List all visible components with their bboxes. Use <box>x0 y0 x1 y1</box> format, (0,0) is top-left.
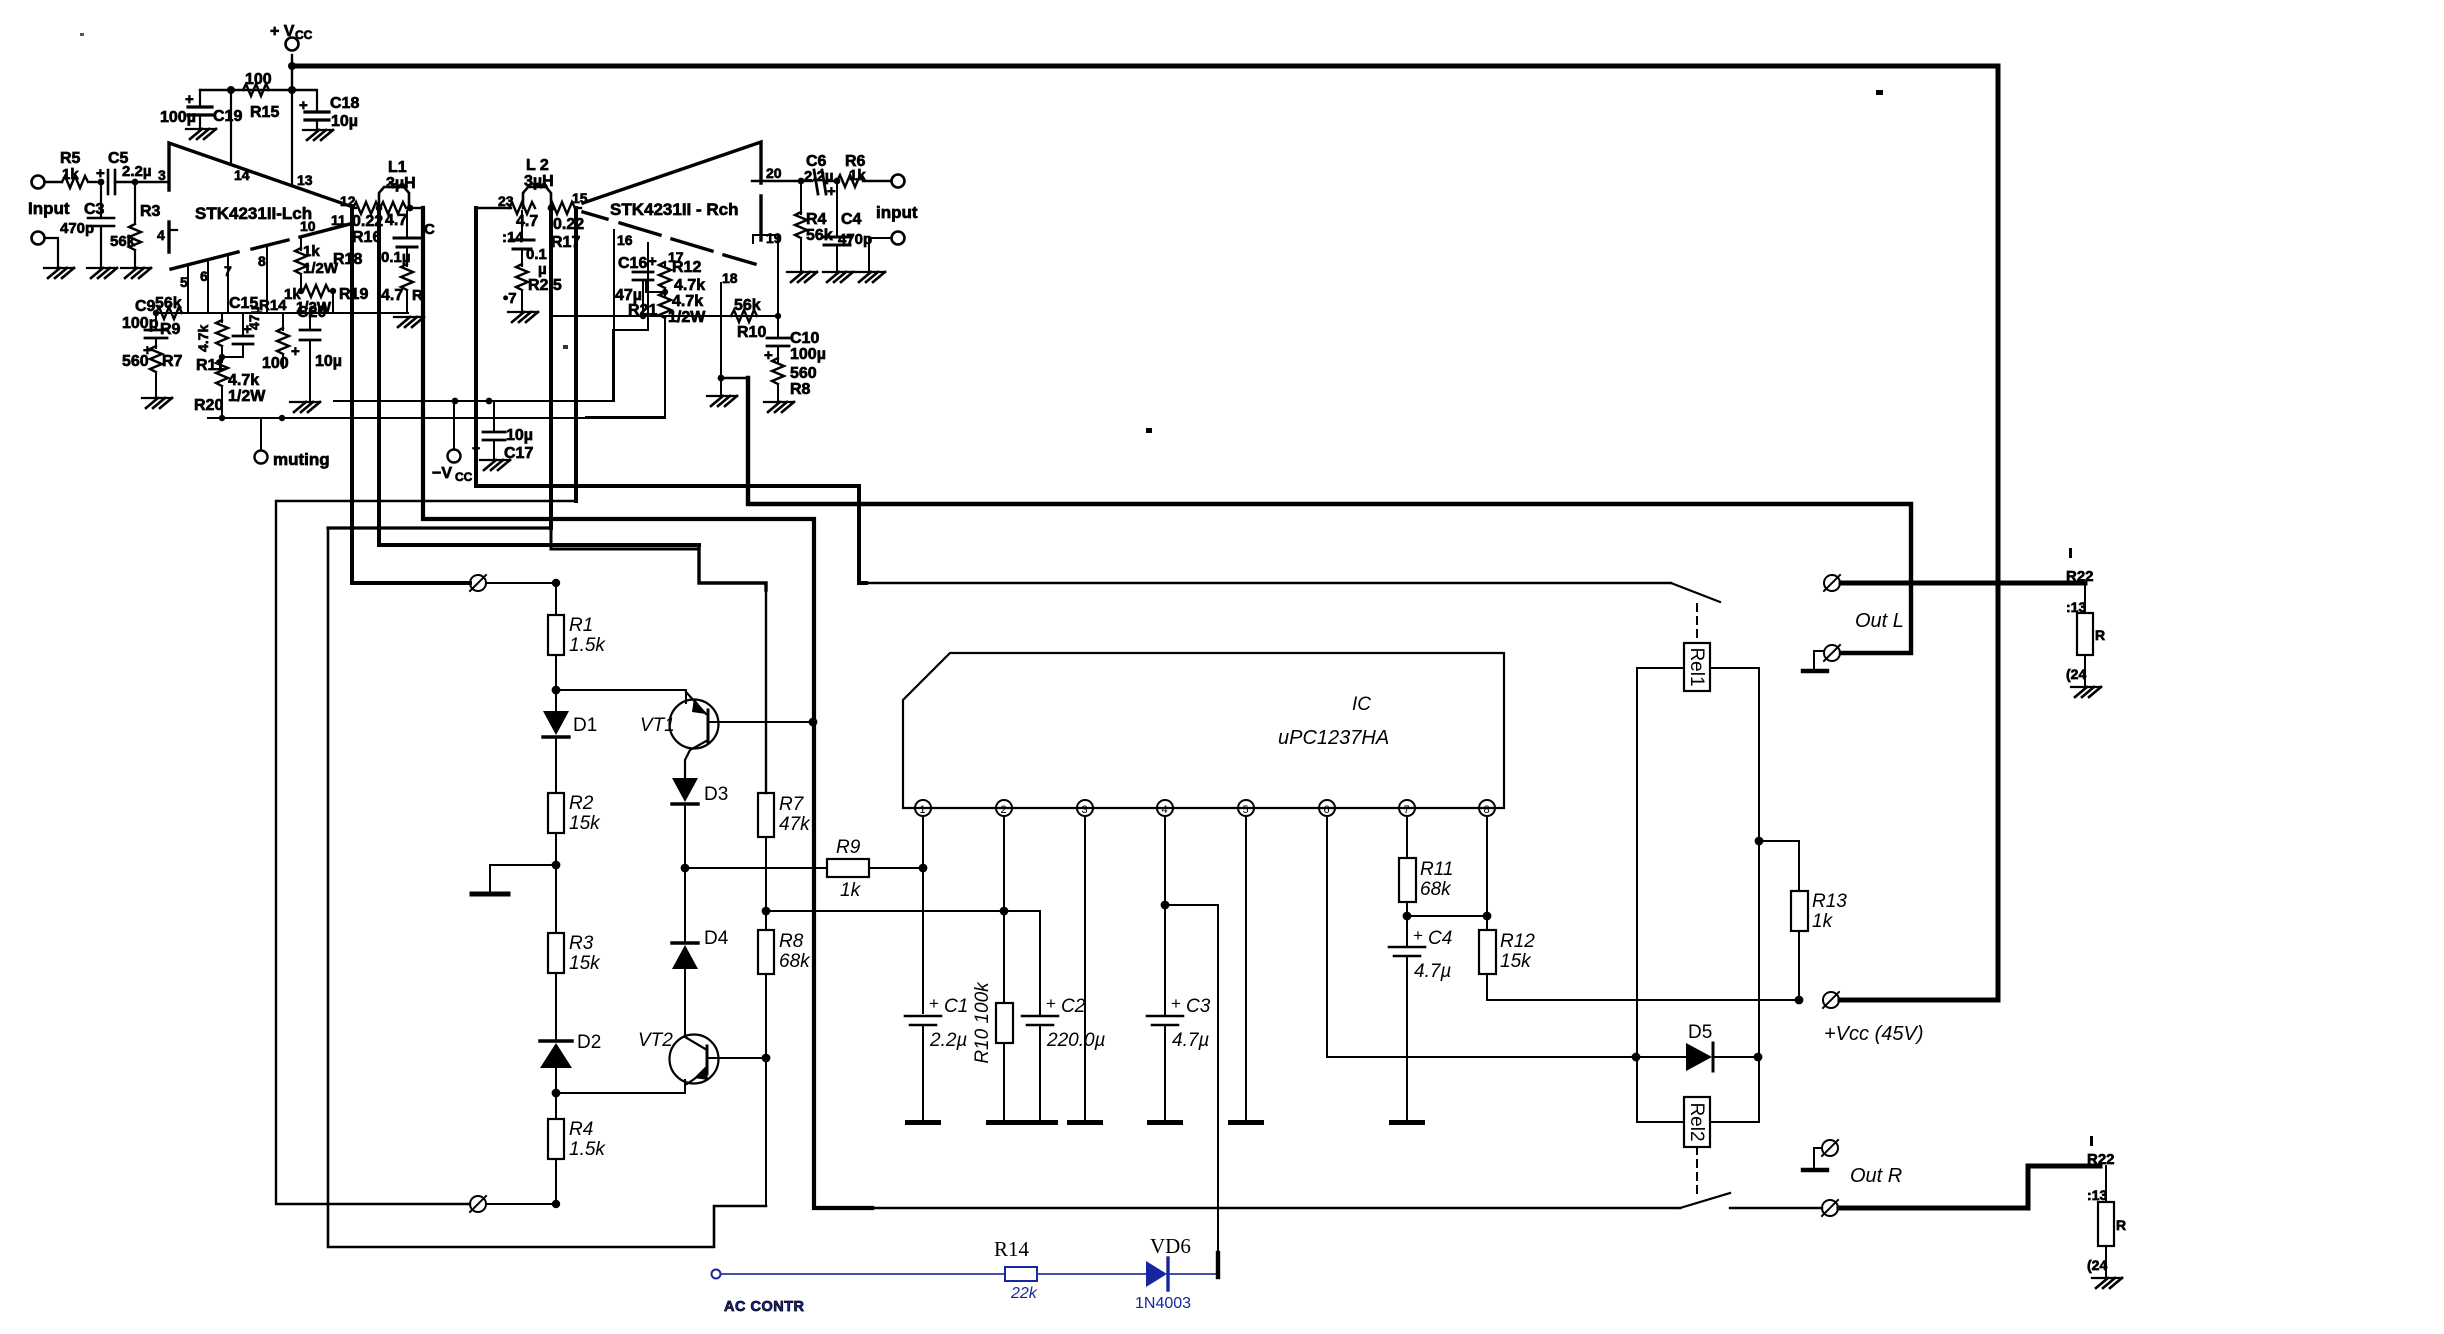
svg-text:68k: 68k <box>1420 879 1452 900</box>
svg-text:10µ: 10µ <box>331 113 358 130</box>
pin 5 <box>187 266 189 313</box>
svg-text:D5: D5 <box>1688 1022 1712 1043</box>
node pin14 <box>227 86 235 94</box>
wire <box>865 180 891 182</box>
svg-text:+: + <box>1046 994 1056 1013</box>
wire base VT1 <box>556 690 686 703</box>
wire Rch input node down to Rel1 switch feed <box>476 208 866 583</box>
resistor R11 68k <box>1399 858 1416 902</box>
svg-text:R14: R14 <box>994 1237 1030 1261</box>
pin 2 <box>996 800 1012 816</box>
Lch feedback row <box>156 312 408 314</box>
dashed link to Rel2 switch <box>1696 1147 1698 1193</box>
svg-text:C2: C2 <box>1061 996 1086 1017</box>
svg-text:100µ: 100µ <box>160 109 196 126</box>
pin 18 <box>720 283 722 316</box>
wire Lch output to Out R feed: long drop at x=814 <box>423 208 872 1208</box>
node <box>552 1200 560 1208</box>
svg-text:470p: 470p <box>60 220 94 237</box>
pin 16 <box>613 230 615 401</box>
ground pin3 <box>1067 1120 1103 1125</box>
svg-text:R2 5: R2 5 <box>528 277 562 294</box>
input terminal 2 (Lch) <box>32 232 45 245</box>
pin 6 <box>207 261 209 313</box>
svg-text:(24: (24 <box>2066 666 2086 682</box>
svg-text:10: 10 <box>300 218 316 234</box>
svg-text:Out L: Out L <box>1855 610 1904 632</box>
svg-text:1k: 1k <box>1812 911 1834 932</box>
svg-text:2.2µ: 2.2µ <box>122 163 152 180</box>
node <box>798 178 805 185</box>
wire Lch speaker hot: pin12 node down to top terminal row <box>352 208 470 583</box>
svg-text:100p: 100p <box>122 315 159 332</box>
svg-text:Rel2: Rel2 <box>1686 1102 1707 1141</box>
svg-text:3: 3 <box>158 167 166 183</box>
wire thin to R4 <box>487 1203 556 1205</box>
pin 20 output <box>752 180 801 182</box>
wire to output vertical <box>410 207 423 209</box>
node <box>552 1089 561 1098</box>
svg-text:R10: R10 <box>737 324 766 341</box>
svg-text:R9: R9 <box>836 837 861 858</box>
svg-text:STK4231II-Lch: STK4231II-Lch <box>195 204 312 223</box>
ground <box>2092 1278 2122 1288</box>
node R13 top <box>1755 837 1764 846</box>
row1 drop at 613 <box>612 330 614 401</box>
ground Out L <box>1814 651 1824 669</box>
node <box>552 579 560 587</box>
ground pin5 <box>1228 1120 1264 1125</box>
svg-text:5: 5 <box>1243 804 1249 816</box>
wire to R13 <box>1759 841 1799 891</box>
capacitor C3 4.7u <box>1147 1015 1183 1018</box>
resistor R1 1.5k <box>555 583 557 615</box>
wire to pin3 <box>135 181 169 183</box>
svg-text:4: 4 <box>157 227 165 243</box>
pin 14 <box>230 90 232 163</box>
node <box>376 205 383 212</box>
svg-text::14: :14 <box>502 229 524 246</box>
capacitor C4 4.7u <box>1389 946 1425 949</box>
capacitor C6 2.2u <box>814 170 818 194</box>
svg-text:7: 7 <box>1404 804 1410 816</box>
node <box>1403 912 1412 921</box>
svg-text:muting: muting <box>273 450 330 469</box>
node <box>552 686 561 695</box>
svg-text:C: C <box>424 221 435 238</box>
svg-text:R13: R13 <box>1812 891 1847 912</box>
svg-text:6: 6 <box>200 268 208 284</box>
svg-text:µ: µ <box>538 261 547 278</box>
wire <box>45 238 58 268</box>
relay coil loop Rel2 <box>1637 1057 1684 1122</box>
resistor R bottom <box>2098 1202 2114 1246</box>
node R7/R8 <box>762 907 771 916</box>
ground <box>44 268 74 278</box>
svg-text:R4: R4 <box>569 1119 593 1140</box>
capacitor C4 470p <box>836 181 838 237</box>
svg-text:C18: C18 <box>330 95 359 112</box>
pin 8 <box>1479 800 1495 816</box>
svg-text:4.7: 4.7 <box>385 212 407 229</box>
svg-text:C9: C9 <box>135 298 156 315</box>
terminal protection bottom <box>470 1196 486 1212</box>
ground under C3 <box>87 268 117 278</box>
capacitor C1 2.2u <box>905 1015 941 1018</box>
svg-text:23: 23 <box>498 193 514 209</box>
svg-text:4.7k: 4.7k <box>195 325 211 352</box>
svg-text:10µ: 10µ <box>315 353 342 370</box>
svg-text:15k: 15k <box>1500 951 1532 972</box>
placeholder groups filled below <box>28 23 1998 484</box>
svg-text:D3: D3 <box>704 784 728 805</box>
resistor R12 4.7k <box>664 263 666 266</box>
capacitor C3 <box>100 182 102 218</box>
diode D3 <box>672 778 698 802</box>
switch Rel2 contact <box>1680 1193 1730 1208</box>
scan speckles <box>1146 428 1152 433</box>
node AC control terminal <box>712 1270 721 1279</box>
node <box>552 861 561 870</box>
svg-text:R8: R8 <box>779 931 804 952</box>
svg-text:20: 20 <box>766 165 782 181</box>
svg-text:C3: C3 <box>1186 996 1211 1017</box>
ground <box>1147 1120 1183 1125</box>
svg-text:5: 5 <box>180 274 188 290</box>
wire R11 to pin8 <box>1407 915 1487 917</box>
svg-text:+ V: + V <box>270 23 295 40</box>
svg-text:R8: R8 <box>790 381 811 398</box>
svg-text:4.7µ: 4.7µ <box>1172 1030 1209 1051</box>
svg-text:−V: −V <box>432 465 452 482</box>
svg-text:+: + <box>1171 994 1181 1013</box>
wire <box>115 181 135 183</box>
diode VD6 1N4003 <box>1146 1261 1167 1287</box>
svg-text:R22: R22 <box>2066 568 2094 585</box>
resistor R13 1k <box>1791 891 1808 931</box>
zobel capacitor C 0.1u <box>406 211 408 238</box>
svg-text:C1: C1 <box>944 996 968 1017</box>
capacitor C5 <box>107 170 110 194</box>
svg-text:4.7k: 4.7k <box>674 277 705 294</box>
svg-text:R: R <box>2095 627 2105 643</box>
svg-text:15k: 15k <box>569 953 601 974</box>
resistor R8 68k <box>758 930 774 974</box>
svg-text:2.2µ: 2.2µ <box>929 1030 967 1051</box>
svg-text:R4: R4 <box>806 211 827 228</box>
capacitor C17 10u <box>493 401 495 432</box>
dashed link to Rel1 <box>1696 604 1698 643</box>
terminal +Vcc <box>1823 992 1839 1008</box>
pin 13 <box>291 90 293 185</box>
svg-text:C16: C16 <box>618 255 647 272</box>
svg-text:+: + <box>96 165 105 182</box>
resistor R12 15k <box>1479 930 1496 974</box>
svg-text:D1: D1 <box>573 715 597 736</box>
diode D2 <box>540 1039 572 1042</box>
node <box>407 205 414 212</box>
node <box>98 179 105 186</box>
svg-text:1/2W: 1/2W <box>228 388 266 405</box>
wire R12 to +Vcc row <box>1487 974 1799 1000</box>
svg-text:100µ: 100µ <box>790 346 826 363</box>
svg-text:11: 11 <box>331 212 346 228</box>
svg-text:R12: R12 <box>1500 931 1535 952</box>
svg-text:D4: D4 <box>704 928 729 949</box>
resistor 4.7 parallel with L1 <box>380 202 406 214</box>
svg-text:47k: 47k <box>779 814 811 835</box>
svg-text:R1: R1 <box>569 615 593 636</box>
diode D4 <box>684 868 686 941</box>
svg-text:4.7k: 4.7k <box>228 372 259 389</box>
capacitor C2 220.0u <box>1039 911 1041 1016</box>
svg-text:4.7: 4.7 <box>381 287 403 304</box>
inductor L2 <box>523 187 551 208</box>
svg-text:19: 19 <box>766 230 782 246</box>
wire row to pin2 <box>766 910 1040 912</box>
pin 17 <box>647 243 649 330</box>
resistor R6 1k <box>837 175 863 187</box>
svg-text:10µ: 10µ <box>506 427 533 444</box>
ground <box>986 1120 1022 1125</box>
svg-text:2: 2 <box>1001 804 1007 816</box>
svg-text:C19: C19 <box>213 108 242 125</box>
ground <box>394 317 424 327</box>
muting terminal <box>260 418 262 450</box>
resistor R4 1.5k <box>555 1093 557 1119</box>
input terminal 2 (Rch) <box>892 232 905 245</box>
pin 5 <box>1238 800 1254 816</box>
svg-text:R15: R15 <box>250 104 279 121</box>
svg-text:1k: 1k <box>849 167 866 184</box>
pin 10 resistor R18 1k 1/2W <box>300 238 302 250</box>
svg-text:+: + <box>1413 926 1423 945</box>
terminal Out L lower <box>1824 645 1840 661</box>
svg-text:15k: 15k <box>569 813 601 834</box>
Rch amplifier triangle STK4231II-Rch <box>583 142 761 203</box>
input terminal 1 (Lch) <box>32 176 45 189</box>
ground stub <box>490 865 556 892</box>
wire Rch speaker return down to Out L lower <box>748 378 1911 653</box>
ground <box>905 1120 941 1125</box>
wire <box>90 181 101 183</box>
wire R9 feed row <box>685 867 827 869</box>
svg-text:560: 560 <box>122 353 149 370</box>
svg-text:4.7k: 4.7k <box>672 293 703 310</box>
node <box>681 864 690 873</box>
ground <box>1022 1120 1058 1125</box>
input terminal 1 (Rch) <box>892 175 905 188</box>
capacitor C18 <box>316 90 318 112</box>
capacitor C15 47u <box>242 313 244 336</box>
pin 7 <box>1399 800 1415 816</box>
wire <box>291 55 293 90</box>
x=721 sense column <box>720 316 722 378</box>
svg-text:CC: CC <box>295 28 313 42</box>
node <box>132 179 139 186</box>
resistor R5 <box>62 176 88 188</box>
wire to Out R switch terminal <box>1730 1207 1822 1209</box>
svg-text:Out R: Out R <box>1850 1165 1902 1187</box>
top supply wire to relays <box>292 64 1998 69</box>
svg-text:1.5k: 1.5k <box>569 1139 606 1160</box>
svg-text:3µH: 3µH <box>524 173 554 190</box>
svg-text:+: + <box>648 253 657 270</box>
wire AC control <box>721 1273 1005 1275</box>
svg-text:1.5k: 1.5k <box>569 635 606 656</box>
node pin13 <box>288 86 296 94</box>
node +Vcc row <box>1795 996 1804 1005</box>
svg-text:R5: R5 <box>60 150 81 167</box>
pin 1 <box>915 800 931 816</box>
svg-text:8: 8 <box>258 253 266 269</box>
diode D5 <box>1632 1053 1641 1062</box>
relay Rel1 <box>1684 643 1710 691</box>
svg-text:+: + <box>827 183 836 200</box>
resistor R21 4.7k 1/2W <box>659 292 671 318</box>
resistor R14 100 <box>282 313 284 330</box>
svg-text:Input: Input <box>28 199 70 218</box>
wire thick +Vcc to supply drop <box>1840 998 1998 1003</box>
svg-text:VT2: VT2 <box>638 1030 673 1051</box>
pin 6 <box>1319 800 1335 816</box>
svg-text:18: 18 <box>722 270 738 286</box>
capacitor C9 100p + resistor R7 560 <box>155 313 157 330</box>
svg-text:L 2: L 2 <box>526 157 549 174</box>
wire L2-right node down into ladder loop <box>549 208 553 528</box>
inductor L1 <box>379 187 409 208</box>
Rch zobel capacitor 0.1u <box>521 211 523 240</box>
bias resistor R19 1k 1/2W <box>298 288 304 294</box>
svg-text:6: 6 <box>1324 804 1330 816</box>
svg-text:STK4231II - Rch: STK4231II - Rch <box>610 200 739 219</box>
pin 19 <box>753 235 778 243</box>
resistor R4 56k <box>800 181 802 214</box>
svg-text:uPC1237HA: uPC1237HA <box>1278 727 1389 749</box>
ground <box>855 272 885 282</box>
junction bar <box>1216 1253 1220 1277</box>
capacitor C16 47u <box>642 282 644 316</box>
terminal Out R switch <box>1822 1200 1838 1216</box>
svg-text:1: 1 <box>920 804 926 816</box>
relay coil loop Rel1 <box>1637 668 1684 1057</box>
wire <box>869 238 891 272</box>
svg-text:R7: R7 <box>779 794 805 815</box>
wire thick Out L upper to R22 <box>1841 581 2085 586</box>
Rch output ladder: resistor 4.7 <box>476 207 511 209</box>
svg-text:R18: R18 <box>333 251 362 268</box>
svg-text:+: + <box>299 97 308 114</box>
svg-text:R3: R3 <box>140 203 161 220</box>
diode D1 <box>555 690 557 711</box>
svg-text:+Vcc (45V): +Vcc (45V) <box>1824 1023 1923 1045</box>
svg-text:1k: 1k <box>303 243 320 260</box>
pin 7 <box>227 256 229 313</box>
svg-text:R12: R12 <box>672 259 701 276</box>
svg-text:R20: R20 <box>194 397 223 414</box>
relay Rel2 <box>1684 1097 1710 1147</box>
svg-text:56k: 56k <box>155 295 182 312</box>
resistor R10 100k <box>996 1003 1013 1043</box>
zobel resistor 4.7 <box>406 247 408 266</box>
capacitor C19 <box>199 90 201 107</box>
wire thin to R1 <box>487 582 556 584</box>
svg-text:1k: 1k <box>840 880 862 901</box>
svg-text:68k: 68k <box>779 951 811 972</box>
transistor VT2 <box>670 1035 719 1084</box>
wire pin12 row <box>352 207 356 209</box>
wire thin feed to Rel1 switch <box>862 582 1671 584</box>
svg-text:14: 14 <box>234 167 250 183</box>
svg-text:IC: IC <box>1352 694 1371 715</box>
ground Out R <box>1814 1148 1822 1168</box>
node <box>288 62 296 70</box>
svg-text:13: 13 <box>297 172 313 188</box>
ground <box>1389 1120 1425 1125</box>
Rch feedback row <box>551 315 778 317</box>
svg-text:4.7: 4.7 <box>516 213 538 230</box>
svg-text:C20: C20 <box>297 304 326 321</box>
switch Rel1 contact <box>1671 583 1720 602</box>
svg-text:7: 7 <box>224 263 232 279</box>
svg-text:CC: CC <box>455 470 473 484</box>
svg-text:R14: R14 <box>259 297 287 314</box>
wire <box>1170 1273 1216 1275</box>
wire <box>1037 1273 1146 1275</box>
svg-text:4.7µ: 4.7µ <box>1414 961 1451 982</box>
resistor R3 <box>134 182 136 222</box>
terminal Out L upper <box>1824 575 1840 591</box>
svg-text:C10: C10 <box>790 330 819 347</box>
resistor R14 22k <box>1005 1267 1037 1281</box>
svg-text:R7: R7 <box>162 353 183 370</box>
svg-text:AC CONTR: AC CONTR <box>724 1299 805 1315</box>
ladder col R11 4.7k over R20 4.7k 1/2W <box>221 313 223 322</box>
terminal Out R top <box>1822 1140 1838 1156</box>
node <box>548 205 555 212</box>
Lch amplifier triangle STK4231II-Lch <box>169 143 350 206</box>
Vcc local rail <box>200 89 316 91</box>
wire VT2 collector <box>707 1057 766 1059</box>
svg-text:L1: L1 <box>388 159 407 176</box>
svg-text:(24: (24 <box>2087 1257 2107 1273</box>
pin 4 <box>1157 800 1173 816</box>
svg-text:Rel1: Rel1 <box>1686 647 1707 686</box>
svg-text:+: + <box>185 91 194 108</box>
resistor R9 1k <box>827 859 869 877</box>
svg-text:220.0µ: 220.0µ <box>1046 1030 1106 1051</box>
resistor R2 15k <box>548 793 564 833</box>
svg-text:C3: C3 <box>84 201 105 218</box>
svg-text:56k: 56k <box>734 297 761 314</box>
capacitor C20 10u <box>309 313 311 330</box>
svg-text:R11: R11 <box>1420 859 1453 880</box>
wire base VT2 <box>556 1080 685 1093</box>
resistor R16 0.22 <box>353 202 379 214</box>
svg-text:15: 15 <box>572 190 588 206</box>
resistor R8 560 <box>772 358 784 384</box>
wire <box>45 181 62 183</box>
svg-text:+: + <box>291 343 300 360</box>
wire VT1 collector <box>708 721 813 723</box>
svg-text:R2: R2 <box>569 793 594 814</box>
pin 4 <box>169 229 177 231</box>
wire L1-left node down and over to R1 node <box>379 208 699 545</box>
svg-text:100: 100 <box>262 355 289 372</box>
svg-text:3: 3 <box>1082 804 1088 816</box>
svg-text:4: 4 <box>1162 804 1168 816</box>
svg-text:R22: R22 <box>2087 1151 2115 1168</box>
